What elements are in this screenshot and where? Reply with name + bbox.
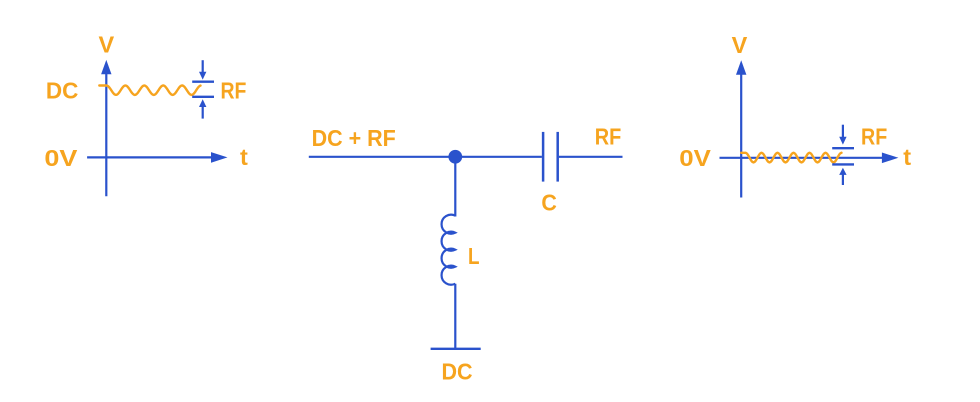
right graph t axis [720,153,899,164]
left graph RF up arrow [199,99,206,118]
svg-text:RF: RF [861,123,887,149]
wire inductor to DC terminal [454,284,456,349]
svg-text:DC + RF: DC + RF [312,125,396,151]
svg-text:C: C [541,190,557,216]
wire input DC+RF to node [309,156,456,158]
left graph RF amplitude bottom tick [192,96,214,98]
right graph RF waveform [741,153,841,163]
wire node to inductor [454,157,456,217]
svg-text:RF: RF [595,124,622,150]
node junction [448,150,462,164]
right graph RF down arrow [839,125,846,145]
svg-text:DC: DC [442,358,473,384]
left graph V axis [101,60,111,196]
svg-text:RF: RF [221,77,247,103]
svg-text:t: t [240,144,248,170]
svg-text:0V: 0V [44,145,77,171]
svg-text:V: V [99,32,115,58]
left graph t axis [87,152,227,163]
wire capacitor to RF output [559,156,623,158]
DC terminal bar [431,348,481,350]
right graph V axis [736,60,746,197]
right graph RF amplitude bottom tick [832,163,854,165]
capacitor C left plate [542,132,545,182]
left graph DC+RF waveform [99,86,200,95]
svg-text:0V: 0V [679,145,711,171]
inductor L [442,215,456,285]
right graph RF up arrow [839,168,846,185]
right graph RF amplitude top tick [832,147,854,149]
wire node to capacitor [455,156,542,158]
svg-text:DC: DC [46,78,79,104]
svg-text:L: L [468,243,480,269]
svg-text:V: V [732,32,748,58]
left graph RF amplitude top tick [192,80,214,82]
svg-text:t: t [903,144,911,170]
left graph RF down arrow [199,60,206,79]
capacitor C right plate [556,132,559,182]
